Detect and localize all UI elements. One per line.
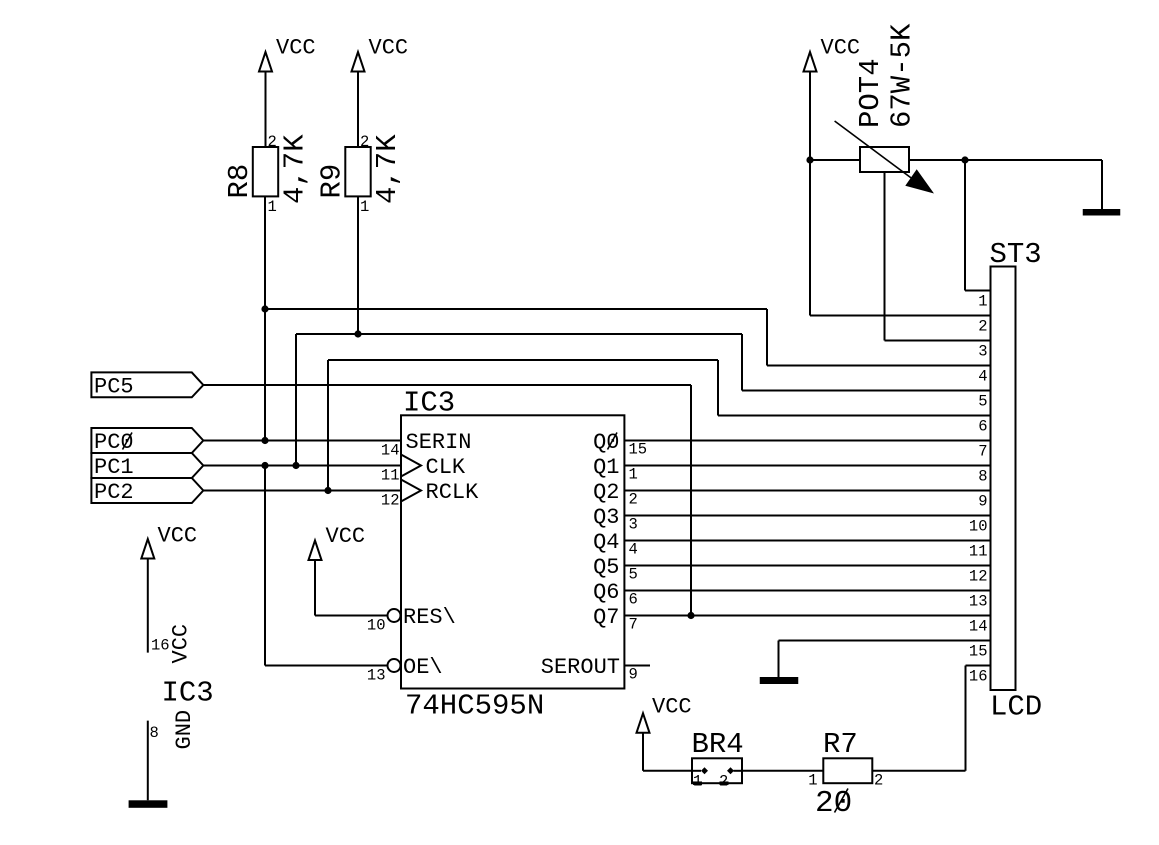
svg-text:2: 2: [268, 133, 277, 151]
wire R8 top: [265, 72, 267, 148]
junction OE branch on PC1 line: [261, 462, 268, 469]
svg-text:Q5: Q5: [593, 555, 619, 580]
wire Q4 to ST3 pin 11: [624, 540, 990, 542]
wire PC5 to Q7 vertical: [690, 385, 692, 616]
svg-text:15: 15: [629, 441, 648, 459]
svg-text:2: 2: [629, 491, 638, 509]
svg-text:VCC: VCC: [326, 524, 366, 549]
junction POT right node: [961, 156, 968, 163]
svg-text:4: 4: [978, 368, 987, 386]
wire ST3 pin6 wire: [718, 415, 991, 417]
power VCC symbol VCC for R8: [259, 36, 316, 72]
wire OE horizontal: [265, 665, 387, 667]
pin RES\ inversion circle: [388, 609, 401, 622]
wire POT VCC vertical + pin2 drop: [809, 72, 811, 316]
wire ST3 pin1 wire: [965, 290, 991, 292]
svg-text:74HC595N: 74HC595N: [405, 690, 544, 723]
wire ST3 pin16 wire: [966, 665, 991, 667]
wire RCLK net riser: [327, 360, 329, 491]
wire Q0 to ST3 pin 7: [624, 440, 990, 442]
wire ST3 pin3 wire: [885, 340, 991, 342]
junction PC5 tap on Q7 line: [687, 612, 694, 619]
power VCC symbol VCC for IC3 power: [141, 523, 197, 558]
svg-text:12: 12: [381, 492, 400, 510]
svg-text:SERIN: SERIN: [406, 430, 472, 455]
pad mark BR4 pin1: [693, 781, 702, 785]
svg-text:11: 11: [969, 543, 988, 561]
svg-text:OE\: OE\: [403, 655, 443, 680]
power VCC symbol VCC for POT4: [804, 36, 861, 72]
svg-text:R8: R8: [223, 164, 256, 199]
wire RES horizontal: [315, 615, 387, 617]
svg-text:6: 6: [978, 418, 987, 436]
svg-text:1: 1: [360, 198, 369, 216]
svg-text:Q6: Q6: [593, 580, 619, 605]
wire R9 bottom: [357, 197, 359, 335]
svg-text:R9: R9: [316, 164, 349, 199]
svg-text:GND: GND: [172, 710, 197, 750]
svg-text:5: 5: [978, 393, 987, 411]
svg-text:6: 6: [629, 591, 638, 609]
wire R8 to PC0 net: [264, 197, 266, 441]
wire Q2 to ST3 pin 9: [624, 490, 990, 492]
wire ST3 pin4 wire: [767, 365, 991, 367]
svg-text:Q4: Q4: [593, 530, 619, 555]
wire R9 top: [357, 72, 359, 148]
wire SEROUT stub: [624, 665, 650, 667]
wire RCLK net to ST3-6 horizontal: [328, 359, 718, 361]
svg-text:1: 1: [978, 293, 987, 311]
ground symbol top right ground: [1083, 209, 1121, 216]
wire Q5 to ST3 pin 12: [624, 565, 990, 567]
pin CLK clock mark: [401, 455, 421, 477]
junction CLK riser on PC1 line: [292, 462, 299, 469]
svg-text:Q1: Q1: [593, 455, 619, 480]
svg-text:IC3: IC3: [403, 387, 455, 420]
node PC5 input flag: [91, 372, 203, 399]
svg-text:10: 10: [367, 617, 386, 635]
resistor R9 4,7K: [316, 133, 405, 216]
wire R7 to pin16 horizontal: [872, 770, 965, 772]
svg-text:VCC: VCC: [158, 523, 198, 548]
svg-text:12: 12: [969, 568, 988, 586]
svg-text:7: 7: [978, 443, 987, 461]
svg-text:13: 13: [367, 667, 386, 685]
op-amp IC3 74HC595N body: [401, 415, 624, 688]
svg-text:Q7: Q7: [593, 605, 619, 630]
svg-text:PC5: PC5: [94, 375, 134, 400]
svg-text:ST3: ST3: [990, 238, 1042, 271]
svg-text:Q3: Q3: [593, 505, 619, 530]
pad mark BR4 pin2: [720, 781, 729, 785]
wire IC3 VCC pin16 stub: [147, 559, 149, 653]
slash on zero of R7 value 20: [835, 789, 849, 813]
svg-text:14: 14: [969, 618, 988, 636]
svg-text:RCLK: RCLK: [426, 480, 480, 505]
svg-text:4: 4: [629, 541, 638, 559]
svg-text:9: 9: [978, 493, 987, 511]
svg-text:11: 11: [381, 467, 400, 485]
wire R8 net to ST3-4 horizontal: [265, 308, 767, 310]
svg-text:8: 8: [150, 724, 159, 742]
slash on zero of Q0: [608, 433, 618, 450]
svg-text:BR4: BR4: [692, 728, 744, 761]
svg-text:8: 8: [978, 468, 987, 486]
svg-text:16: 16: [969, 668, 988, 686]
power VCC symbol VCC for RES pin: [309, 524, 366, 560]
svg-text:3: 3: [629, 516, 638, 534]
pin OE\ inversion circle: [388, 659, 401, 672]
resistor R7 20: [808, 728, 883, 821]
jumper BR4: [692, 728, 744, 791]
wire POT wiper drop: [884, 172, 886, 341]
svg-text:7: 7: [629, 616, 638, 634]
svg-text:VCC: VCC: [169, 624, 194, 664]
wire IC3 GND pin8 stub: [147, 721, 149, 801]
svg-text:IC3: IC3: [162, 677, 214, 710]
svg-text:5: 5: [629, 566, 638, 584]
wire VCC to RES vertical: [314, 560, 316, 616]
wire ST3 pin2 wire: [810, 315, 991, 317]
svg-text:1: 1: [808, 772, 817, 790]
power VCC symbol VCC for BR4: [637, 695, 692, 733]
svg-text:RES\: RES\: [403, 605, 456, 630]
wire PC1 to CLK: [203, 465, 401, 467]
svg-text:VCC: VCC: [276, 36, 316, 61]
svg-text:2: 2: [874, 772, 883, 790]
svg-text:4,7K: 4,7K: [279, 134, 312, 204]
node PC2 input flag: [91, 478, 203, 505]
svg-text:3: 3: [978, 343, 987, 361]
resistor R8 4,7K: [223, 133, 312, 216]
wire PC1 to OE vertical: [264, 466, 266, 666]
wire CLK net to ST3-5 vertical: [741, 334, 743, 391]
slash on zero of PC0: [123, 433, 133, 450]
wire PC2 to RCLK: [203, 490, 401, 492]
svg-text:VCC: VCC: [821, 36, 861, 61]
connector ST3 body: [991, 267, 1016, 691]
svg-text:9: 9: [629, 666, 638, 684]
wire CLK net to ST3-5 horizontal: [296, 333, 742, 335]
svg-text:SEROUT: SEROUT: [541, 655, 620, 680]
wire top rail right: [909, 159, 1102, 161]
wire pin15 ground drop: [778, 641, 780, 678]
wire top rail to ground corner: [1101, 160, 1103, 209]
wire pin16 riser: [965, 666, 967, 771]
svg-text:VCC: VCC: [652, 695, 692, 720]
svg-text:R7: R7: [823, 728, 858, 761]
wire R8 net to ST3-4 vertical: [766, 309, 768, 366]
svg-text:VCC: VCC: [369, 36, 409, 61]
svg-text:2: 2: [978, 318, 987, 336]
wire Q7 to ST3 pin 14: [624, 615, 990, 617]
svg-text:Q2: Q2: [593, 480, 619, 505]
wire ST3 pin5 wire: [742, 390, 991, 392]
wire BR4 to R7: [742, 770, 823, 772]
wire VCC to BR4 pin1: [643, 770, 692, 772]
junction R9 net junction: [354, 330, 361, 337]
svg-text:POT4: POT4: [854, 58, 887, 128]
wire ST3 pin15 wire: [779, 640, 991, 642]
svg-text:CLK: CLK: [426, 455, 466, 480]
wire Q1 to ST3 pin 8: [624, 465, 990, 467]
junction POT left node: [806, 156, 813, 163]
wire RCLK net to ST3-6 vertical: [717, 360, 719, 416]
svg-text:67W-5K: 67W-5K: [886, 23, 919, 128]
wire PC0 to SERIN: [203, 440, 401, 442]
wire Q6 to ST3 pin 13: [624, 590, 990, 592]
svg-text:LCD: LCD: [990, 691, 1042, 724]
wire top rail left: [810, 159, 860, 161]
svg-text:16: 16: [151, 637, 170, 655]
ground symbol IC3 ground: [129, 800, 168, 808]
svg-text:14: 14: [381, 442, 400, 460]
junction R8 net on PC0 line: [261, 437, 268, 444]
svg-text:10: 10: [969, 518, 988, 536]
junction RCLK riser on PC2 line: [324, 487, 331, 494]
svg-text:PC1: PC1: [94, 455, 134, 480]
node PC0 input flag: [91, 428, 203, 455]
svg-text:PC0: PC0: [94, 430, 134, 455]
svg-text:4,7K: 4,7K: [371, 134, 404, 204]
wire Q3 to ST3 pin 10: [624, 515, 990, 517]
ground symbol pin15 ground: [760, 677, 799, 684]
svg-text:15: 15: [969, 643, 988, 661]
svg-text:13: 13: [969, 593, 988, 611]
wire ST3 pin1 drop: [964, 160, 966, 291]
junction R8 net / pin4 branch: [261, 305, 268, 312]
pin RCLK clock mark: [401, 480, 421, 502]
power VCC symbol VCC for R9: [352, 36, 409, 72]
wire CLK net riser: [295, 334, 297, 466]
svg-text:1: 1: [629, 466, 638, 484]
wire PC5 horizontal: [203, 384, 691, 386]
wire VCC drop to BR4: [642, 733, 644, 771]
svg-text:2: 2: [360, 133, 369, 151]
svg-text:1: 1: [268, 198, 277, 216]
svg-text:PC2: PC2: [94, 480, 134, 505]
node PC1 input flag: [91, 453, 203, 480]
potentiometer POT4 67W-5K: [835, 23, 934, 194]
